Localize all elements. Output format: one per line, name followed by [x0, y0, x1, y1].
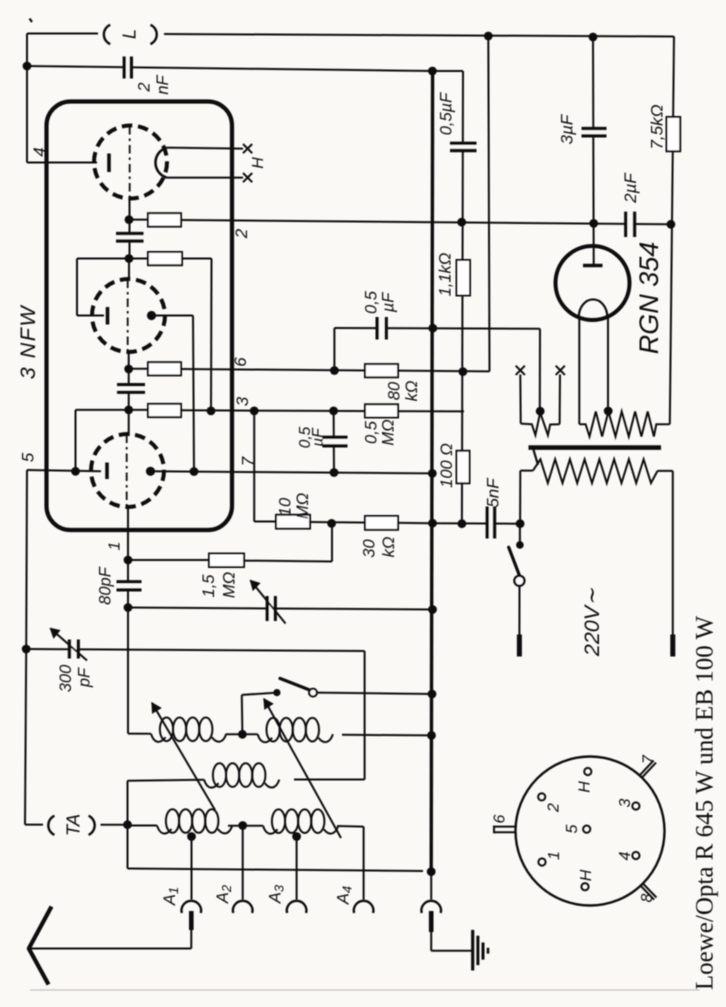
svg-text:1: 1 — [546, 851, 563, 860]
svg-text:H: H — [578, 869, 595, 881]
svg-text:2: 2 — [232, 228, 251, 239]
svg-text:H: H — [250, 157, 267, 169]
svg-text:300: 300 — [57, 664, 75, 692]
svg-text:nF: nF — [154, 74, 172, 94]
svg-text:80pF: 80pF — [97, 566, 115, 605]
svg-text:1,1kΩ: 1,1kΩ — [437, 253, 455, 297]
svg-text:5: 5 — [19, 452, 38, 462]
svg-text:3 NFW: 3 NFW — [16, 305, 40, 380]
svg-text:3: 3 — [617, 798, 634, 807]
svg-text:2: 2 — [546, 803, 563, 813]
svg-text:100 Ω: 100 Ω — [438, 443, 456, 488]
svg-text:4: 4 — [617, 851, 634, 860]
svg-text:0,5: 0,5 — [363, 290, 381, 314]
svg-text:L: L — [120, 29, 140, 39]
svg-text:6: 6 — [231, 357, 250, 367]
svg-text:RGN 354: RGN 354 — [634, 242, 664, 355]
svg-text:kΩ: kΩ — [403, 381, 421, 402]
svg-text:MΩ: MΩ — [221, 572, 239, 598]
svg-text:µF: µF — [380, 292, 398, 314]
svg-text:10: 10 — [277, 497, 295, 516]
svg-text:TA: TA — [63, 814, 84, 836]
svg-text:6: 6 — [492, 814, 509, 823]
svg-text:3: 3 — [233, 396, 252, 406]
svg-text:7: 7 — [641, 754, 658, 764]
svg-text:pF: pF — [76, 667, 94, 688]
svg-text:7,5kΩ: 7,5kΩ — [648, 104, 667, 149]
svg-text:MΩ: MΩ — [380, 419, 398, 445]
svg-text:kΩ: kΩ — [380, 537, 398, 558]
svg-text:7: 7 — [239, 456, 258, 466]
svg-text:4: 4 — [30, 147, 49, 156]
svg-text:H: H — [577, 781, 594, 793]
svg-text:1: 1 — [107, 542, 124, 551]
svg-text:0,5: 0,5 — [363, 420, 381, 444]
svg-text:µF: µF — [310, 427, 327, 447]
svg-text:2µF: 2µF — [621, 172, 640, 204]
svg-text:3µF: 3µF — [558, 113, 577, 144]
svg-text:MΩ: MΩ — [294, 493, 312, 519]
svg-text:30: 30 — [361, 539, 379, 558]
svg-text:5nF: 5nF — [484, 477, 503, 508]
svg-text:8: 8 — [639, 893, 656, 902]
svg-text:2: 2 — [136, 82, 154, 92]
svg-text:220V∼: 220V∼ — [580, 588, 604, 657]
svg-text:80: 80 — [386, 381, 404, 400]
svg-text:1,5: 1,5 — [200, 574, 218, 598]
svg-text:5: 5 — [564, 824, 581, 833]
svg-text:0,5µF: 0,5µF — [438, 92, 456, 135]
svg-text:Loewe/Opta R 645 W und EB 100: Loewe/Opta R 645 W und EB 100 W — [692, 615, 719, 990]
